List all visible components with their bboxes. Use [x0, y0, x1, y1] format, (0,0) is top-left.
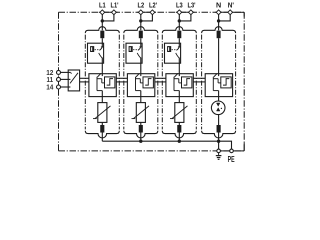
enclosure top edge solid segment at L2 — [137, 11, 156, 13]
terminal L2 (diamond) — [138, 10, 143, 15]
terminal label L2' — [149, 1, 157, 10]
N-PE spark gap — [211, 101, 225, 115]
enclosure top edge solid segment at L1 — [99, 11, 118, 13]
indicator switch contact L3 — [176, 43, 181, 63]
mechanical link (dashed) L3 — [172, 49, 176, 51]
protection module outline L2 right side — [157, 35, 159, 130]
trigger impulse symbol L3 — [184, 79, 190, 86]
wire terminal 14 — [60, 86, 70, 88]
junction L1/L1' — [101, 19, 104, 22]
enclosure top edge solid segment at N — [215, 11, 234, 13]
monitoring wire lower (to module L3) — [155, 81, 166, 83]
trigger switch contact L3 — [174, 73, 182, 96]
remote signalling contact box — [68, 70, 79, 91]
wire L2' drop and link — [141, 14, 153, 21]
terminal L1' (diamond) — [112, 10, 117, 15]
protection module outline L3 bottom edge — [162, 131, 196, 138]
monitoring wire lower (to module L2) — [116, 81, 127, 83]
enclosure top edge solid segment at L3 — [176, 11, 195, 13]
trigger impulse symbol N — [223, 79, 229, 86]
terminal label N' — [228, 1, 234, 10]
wire spark gap to lower disconnector N — [218, 115, 220, 125]
svg-text:PE: PE — [228, 155, 235, 164]
wire to PE bus L2 — [140, 133, 142, 142]
terminal 11 — [57, 77, 61, 81]
enclosure top-right corner solid segment — [234, 12, 245, 16]
lower disconnecting device L1 — [100, 125, 104, 133]
trigger electronics box L1 — [105, 77, 115, 88]
wire disconnector to trigger box N — [218, 38, 220, 73]
svg-text:L2: L2 — [137, 1, 144, 10]
monitoring wire upper (to module N) — [193, 77, 205, 79]
varistor (phase L2) — [132, 103, 150, 123]
wire varistor to lower disconnector L3 — [178, 122, 180, 125]
terminal 12 — [57, 70, 61, 74]
svg-text:L1': L1' — [111, 1, 119, 10]
junction L3 on PE bus — [178, 140, 181, 143]
junction L2/L2' — [139, 19, 142, 22]
protection module outline N bottom edge — [202, 131, 236, 138]
lower disconnecting device L2 — [139, 125, 143, 133]
svg-text:L3': L3' — [188, 1, 196, 10]
monitoring wire lower (remote box to module L1) — [80, 81, 89, 83]
wire N' drop and link — [219, 14, 231, 21]
wire indicator to trigger box L3 — [178, 63, 180, 73]
svg-text:N': N' — [228, 1, 234, 10]
changeover contact blade — [70, 72, 78, 83]
mechanical link (dashed) L2 — [133, 49, 137, 51]
earth symbol — [216, 153, 222, 160]
wire varistor to lower disconnector L2 — [140, 122, 142, 125]
trigger electronics box N — [221, 77, 231, 88]
wire trigger box to varistor L2 — [140, 97, 142, 103]
spark-gap trigger box L2 — [127, 74, 154, 97]
protection module outline N right side — [235, 35, 237, 130]
varistor (phase L3) — [170, 103, 188, 123]
wire trigger box to spark gap N — [218, 97, 220, 104]
protection module outline L1 bottom edge — [85, 131, 119, 138]
trigger electronics box L2 — [143, 77, 153, 88]
trigger impulse symbol L2 — [145, 79, 151, 86]
terminal L2' (diamond) — [150, 10, 155, 15]
spark-gap trigger box L1 — [89, 74, 116, 97]
terminal N' (diamond) — [228, 10, 233, 15]
status indicator box L2 — [126, 43, 142, 63]
wire terminal 11 — [60, 78, 70, 80]
trigger electronics box L3 — [182, 77, 192, 88]
thermal disconnecting device (phase N) — [217, 31, 221, 39]
protection module outline L2 left side — [123, 35, 125, 130]
wire L3 drop — [178, 14, 180, 30]
junction L3/L3' — [178, 19, 181, 22]
protection module outline N left side — [201, 35, 203, 130]
thermal disconnecting device (phase L2) — [139, 31, 143, 39]
terminal label 14 — [46, 83, 53, 92]
wire L1' drop and link — [102, 14, 114, 21]
wire N junction to earth terminal — [218, 141, 220, 149]
protection module outline L3 left side — [161, 35, 163, 130]
trigger impulse symbol L1 — [107, 79, 113, 86]
wire L1 drop — [101, 14, 103, 30]
terminal L1 (diamond) — [100, 10, 105, 15]
terminal L3' (diamond) — [189, 10, 194, 15]
wire to PE bus L3 — [178, 133, 180, 142]
varistor (phase L1) — [93, 103, 111, 123]
earth terminal — [217, 149, 221, 153]
terminal label L3 — [176, 1, 183, 10]
status indicator box L3 — [165, 43, 181, 63]
PE terminal — [230, 149, 234, 153]
terminal label L3' — [188, 1, 196, 10]
trigger switch contact L2 — [136, 73, 144, 96]
wire disconnector to indicator box L1 — [101, 38, 103, 43]
protection module outline L2 bottom edge — [124, 131, 158, 138]
wire indicator to trigger box L2 — [140, 63, 142, 73]
protection module outline L3 right side — [195, 35, 197, 130]
wire L2 drop — [140, 14, 142, 30]
svg-text:L1: L1 — [99, 1, 106, 10]
spark-gap trigger box N — [205, 74, 232, 97]
terminal label N — [216, 1, 221, 10]
terminal label 12 — [46, 68, 53, 77]
defect display symbol L2 — [129, 46, 133, 52]
terminal N (diamond) — [216, 10, 221, 15]
lower disconnecting device N — [217, 125, 221, 133]
protection module outline L3 top edge — [162, 27, 196, 33]
PE bus — [102, 141, 231, 149]
mechanical link (dashed) L1 — [95, 49, 99, 51]
indicator switch contact L2 — [137, 43, 142, 63]
thermal disconnecting device (phase L1) — [100, 31, 104, 39]
svg-text:N: N — [216, 1, 221, 10]
wire trigger box to varistor L3 — [178, 97, 180, 103]
protection module outline N top edge — [202, 27, 236, 33]
wire indicator to trigger box L1 — [101, 63, 103, 73]
spark-gap trigger box L3 — [166, 74, 193, 97]
wire to PE bus N — [218, 133, 220, 142]
monitoring wire upper (to module L2) — [116, 77, 127, 79]
wire varistor to lower disconnector L1 — [101, 122, 103, 125]
enclosure bottom-right corner solid segment — [220, 143, 244, 151]
protection module outline L1 top edge — [85, 27, 119, 33]
wire to PE bus L1 — [101, 133, 103, 142]
terminal 14 — [57, 85, 61, 89]
defect display symbol L3 — [167, 46, 171, 52]
junction N on PE bus — [217, 140, 220, 143]
junction N/N' — [217, 19, 220, 22]
protection module outline L1 right side — [118, 35, 120, 130]
wire terminal 12 — [60, 71, 70, 73]
wire disconnector to indicator box L3 — [178, 38, 180, 43]
wire N drop — [218, 14, 220, 30]
lower disconnecting device L3 — [177, 125, 181, 133]
status indicator box L1 — [88, 43, 104, 63]
terminal label L1 — [99, 1, 106, 10]
protection module outline L2 top edge — [124, 27, 158, 33]
wire L3' drop and link — [179, 14, 191, 21]
terminal label 11 — [47, 75, 54, 84]
svg-text:L2': L2' — [149, 1, 157, 10]
trigger switch contact L1 — [97, 73, 105, 96]
label PE — [228, 155, 235, 164]
svg-text:14: 14 — [46, 83, 53, 92]
thermal disconnecting device (phase L3) — [177, 31, 181, 39]
device enclosure boundary (dash-dot) — [59, 12, 245, 151]
indicator switch contact L1 — [99, 43, 104, 63]
terminal L3 (diamond) — [177, 10, 182, 15]
defect display symbol L1 — [90, 46, 94, 52]
monitoring wire upper (remote box to module L1) — [80, 77, 89, 79]
terminal label L2 — [137, 1, 144, 10]
svg-text:L3: L3 — [176, 1, 183, 10]
monitoring wire upper (to module L3) — [155, 77, 166, 79]
protection module outline L1 left side — [84, 35, 86, 130]
wire trigger box to varistor L1 — [101, 97, 103, 103]
wire disconnector to indicator box L2 — [140, 38, 142, 43]
terminal label L1' — [111, 1, 119, 10]
junction L2 on PE bus — [139, 140, 142, 143]
monitoring wire lower (to module N) — [193, 81, 205, 83]
trigger switch contact N — [213, 73, 221, 96]
